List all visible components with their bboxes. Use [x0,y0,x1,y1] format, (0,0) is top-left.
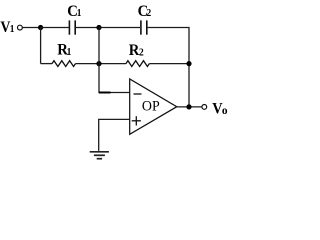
wire node B down to node C [98,28,100,64]
resistor R2 [126,61,149,67]
wire node A to C1 [41,27,69,29]
svg-text:1: 1 [77,8,82,20]
node A junction [38,25,43,30]
junction output rail [186,104,191,109]
label R2 [129,41,144,59]
inverting input pin stub [99,92,111,94]
label C1 [67,3,81,21]
node B junction top [96,25,101,30]
label C2 [138,3,152,21]
plus sign [132,116,141,125]
wire C1 to node B [76,27,99,29]
svg-text:2: 2 [139,47,144,59]
op-amp OP [130,79,177,134]
label R1 [57,41,71,59]
capacitor C2 [141,20,147,34]
svg-text:1: 1 [67,46,72,58]
node C junction mid [96,61,101,66]
terminal V1 [18,25,23,30]
wire C2 to right rail [148,28,189,107]
svg-text:2: 2 [147,8,152,20]
minus sign [134,93,142,95]
resistor R1 [52,61,76,67]
label Vo [212,100,228,118]
svg-text:OP: OP [142,98,160,115]
wire R2 to right rail [149,63,189,65]
terminal Vo [202,105,207,110]
junction R2 rail [186,61,191,66]
capacitor C1 [69,20,75,34]
wire input to node A [22,27,40,29]
wire to R1 [41,63,52,65]
svg-text:1: 1 [10,24,15,36]
wire R1 to node C [76,63,127,65]
wire output [177,106,202,108]
wire node B to C2 [99,27,140,29]
label V1 [0,20,14,37]
wire plus input to ground [99,119,130,150]
ground [90,152,109,159]
svg-text:o: o [222,104,228,117]
wire node A down [40,28,42,64]
wire node C down to inverting input [99,64,130,93]
